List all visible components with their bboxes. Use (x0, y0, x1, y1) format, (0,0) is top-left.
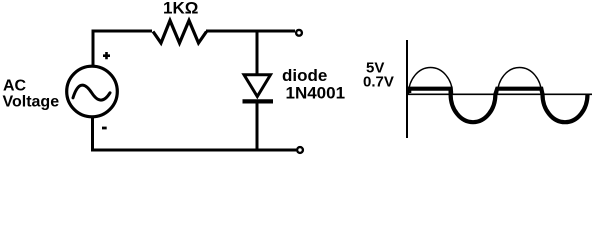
wire: bottom from source to bottom-right terminal (91, 149, 296, 152)
diode D1 1N4001 triangle (anode) (244, 75, 271, 97)
AC source sine symbol (73, 85, 110, 100)
minus polarity mark (102, 127, 107, 130)
waveform horizontal axis (407, 93, 592, 95)
svg-text:diode: diode (282, 66, 327, 85)
svg-text:1KΩ: 1KΩ (163, 0, 198, 18)
terminal: top-right open circle (296, 30, 302, 36)
terminal: bottom-right open circle (297, 147, 303, 153)
wire: diode cathode to bottom wire (256, 103, 259, 150)
resistor R1 1KΩ zigzag (153, 21, 207, 44)
diode cathode bar (243, 99, 274, 103)
input sine thin arc 1 (409, 68, 453, 95)
waveform vertical axis (406, 40, 408, 138)
svg-text:1N4001: 1N4001 (286, 84, 346, 103)
svg-text:Voltage: Voltage (3, 94, 60, 111)
wire: resistor to top-right terminal (206, 30, 295, 33)
input sine thin arc 2 (498, 68, 542, 95)
svg-text:0.7V: 0.7V (363, 74, 394, 91)
output clipped waveform thick (409, 89, 587, 123)
wire: junction down to diode anode (256, 31, 259, 74)
plus polarity mark (103, 52, 110, 59)
wire: source bottom vertical lead (91, 118, 94, 151)
svg-text:AC: AC (3, 78, 27, 95)
AC source V1 circle (67, 66, 118, 117)
wire: top lead from AC source corner to resistor (93, 30, 152, 33)
wire: source top vertical lead (92, 30, 95, 66)
